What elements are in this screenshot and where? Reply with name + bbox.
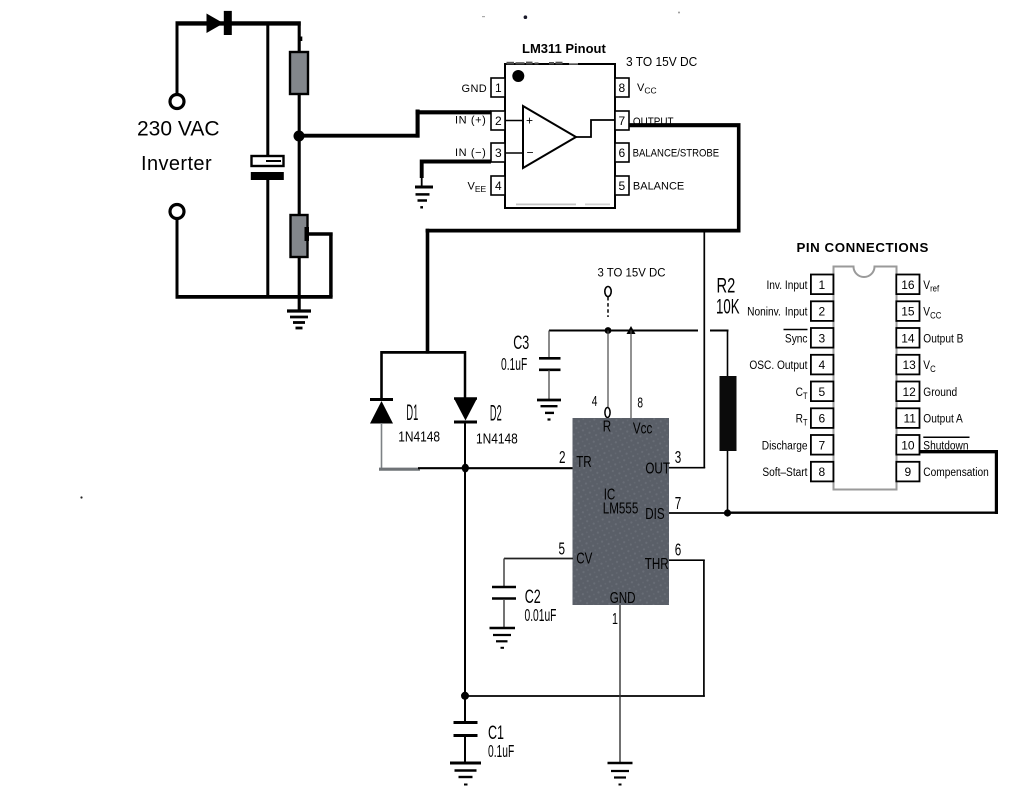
svg-text:10: 10 — [901, 438, 915, 452]
svg-text:16: 16 — [901, 278, 915, 292]
svg-text:Noninv. Input: Noninv. Input — [747, 306, 808, 319]
svg-text:1: 1 — [612, 610, 618, 627]
svg-text:DIS: DIS — [645, 505, 664, 522]
svg-text:230 VAC: 230 VAC — [137, 117, 220, 140]
svg-text:PIN CONNECTIONS: PIN CONNECTIONS — [797, 240, 929, 255]
svg-text:Discharge: Discharge — [762, 439, 808, 452]
svg-text:6: 6 — [819, 412, 826, 426]
svg-text:1N4148: 1N4148 — [398, 428, 440, 444]
svg-text:0.01uF: 0.01uF — [525, 606, 557, 626]
svg-text:2: 2 — [819, 305, 826, 319]
svg-text:12: 12 — [903, 385, 917, 399]
svg-text:Vcc: Vcc — [633, 420, 652, 437]
svg-text:9: 9 — [905, 465, 912, 479]
svg-text:0.1uF: 0.1uF — [488, 742, 514, 762]
svg-text:Soft–Start: Soft–Start — [762, 466, 808, 479]
svg-text:4: 4 — [495, 179, 502, 193]
svg-text:3: 3 — [495, 146, 502, 160]
svg-text:0.1uF: 0.1uF — [501, 355, 527, 375]
svg-text:IN (+): IN (+) — [455, 115, 486, 127]
svg-text:7: 7 — [619, 114, 626, 128]
svg-text:D2: D2 — [490, 401, 502, 426]
svg-text:4: 4 — [819, 358, 826, 372]
svg-text:6: 6 — [675, 540, 682, 560]
svg-text:3: 3 — [819, 331, 826, 345]
svg-text:14: 14 — [901, 331, 915, 345]
svg-text:8: 8 — [619, 81, 626, 95]
svg-text:5: 5 — [619, 179, 626, 193]
svg-text:7: 7 — [819, 438, 826, 452]
svg-text:3 TO 15V DC: 3 TO 15V DC — [598, 266, 666, 279]
svg-text:1: 1 — [819, 278, 826, 292]
svg-text:8: 8 — [819, 465, 826, 479]
svg-text:15: 15 — [901, 305, 915, 319]
svg-text:BALANCE/STROBE: BALANCE/STROBE — [633, 148, 720, 160]
svg-text:Output A: Output A — [923, 413, 963, 426]
svg-text:BALANCE: BALANCE — [633, 180, 684, 192]
svg-text:−: − — [527, 146, 534, 160]
svg-text:10K: 10K — [716, 294, 740, 318]
svg-text:C3: C3 — [513, 332, 529, 353]
svg-text:CV: CV — [576, 550, 593, 567]
svg-text:7: 7 — [675, 493, 682, 513]
svg-text:1N4148: 1N4148 — [476, 430, 518, 446]
svg-text:4: 4 — [592, 393, 598, 409]
svg-text:C1: C1 — [488, 722, 504, 743]
svg-text:+: + — [526, 114, 533, 128]
svg-text:C2: C2 — [525, 586, 541, 607]
svg-text:OUT: OUT — [645, 460, 670, 477]
svg-text:Ground: Ground — [923, 386, 957, 399]
svg-text:Compensation: Compensation — [923, 466, 989, 479]
svg-text:LM311 Pinout: LM311 Pinout — [522, 41, 606, 56]
svg-text:6: 6 — [619, 146, 626, 160]
svg-text:2: 2 — [559, 447, 566, 467]
svg-text:LM555: LM555 — [603, 500, 639, 517]
svg-text:1: 1 — [495, 81, 502, 95]
svg-text:13: 13 — [903, 358, 917, 372]
svg-text:D1: D1 — [406, 400, 418, 425]
svg-text:Inv. Input: Inv. Input — [766, 279, 808, 292]
svg-text:5: 5 — [819, 385, 826, 399]
svg-text:TR: TR — [576, 454, 592, 471]
svg-text:Inverter: Inverter — [141, 153, 212, 175]
svg-text:3: 3 — [675, 447, 682, 467]
svg-text:2: 2 — [495, 114, 502, 128]
svg-text:5: 5 — [559, 539, 566, 559]
svg-text:11: 11 — [904, 412, 917, 426]
svg-text:8: 8 — [637, 395, 643, 411]
svg-text:Sync: Sync — [785, 332, 808, 345]
svg-text:R: R — [603, 418, 611, 435]
svg-text:3 TO 15V DC: 3 TO 15V DC — [626, 55, 697, 70]
svg-text:GND: GND — [610, 589, 636, 606]
svg-text:THR: THR — [645, 555, 669, 572]
svg-text:OSC. Output: OSC. Output — [749, 359, 808, 372]
svg-text:Output B: Output B — [923, 332, 963, 345]
svg-text:IN (−): IN (−) — [455, 147, 486, 159]
svg-text:GND: GND — [462, 83, 488, 95]
